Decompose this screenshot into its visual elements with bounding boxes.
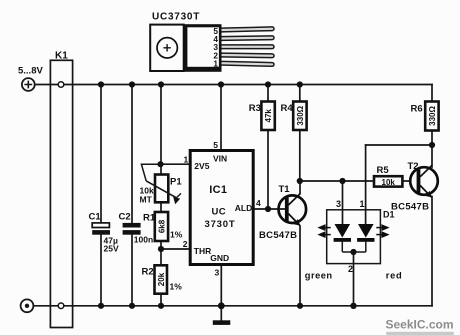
terminal 0 xyxy=(21,299,34,312)
junction dot node THR xyxy=(158,246,164,252)
svg-text:SeekIC.com: SeekIC.com xyxy=(386,318,454,332)
svg-text:1: 1 xyxy=(360,199,365,209)
svg-text:R4: R4 xyxy=(281,103,294,114)
IC package mounting hole xyxy=(157,38,177,58)
P1 wiper wire xyxy=(141,164,160,181)
IC package pin 5 lead xyxy=(219,27,274,32)
svg-text:1%: 1% xyxy=(170,282,183,292)
svg-text:GND: GND xyxy=(210,253,229,263)
IC package pin 4 lead xyxy=(219,36,274,41)
junction dot node A xyxy=(297,178,303,184)
IC package body xyxy=(184,24,222,72)
svg-text:THR: THR xyxy=(194,246,211,256)
svg-text:3: 3 xyxy=(336,199,341,209)
junction dots bottom rail xyxy=(98,302,357,309)
svg-text:1%: 1% xyxy=(170,230,183,240)
svg-text:6k8: 6k8 xyxy=(157,219,166,233)
resistor R2 xyxy=(155,265,168,293)
svg-text:330Ω: 330Ω xyxy=(296,105,305,125)
wire C2 bottom xyxy=(131,235,133,306)
wire R6 to LED pin1 xyxy=(366,144,432,146)
potentiometer P1 box xyxy=(155,175,168,203)
wire pin4 ALD to T1 base xyxy=(253,208,285,210)
wire pin5 VIN xyxy=(220,85,222,151)
P1 wiper arrow xyxy=(146,181,181,204)
svg-text:3: 3 xyxy=(215,268,220,278)
svg-text:10k: 10k xyxy=(382,178,396,187)
junction dot node P1 wiper xyxy=(157,161,163,167)
wire R3 top xyxy=(267,85,269,102)
wire R4 top xyxy=(299,85,301,102)
resistor R3 xyxy=(261,102,274,131)
wire node A to R5 xyxy=(300,180,374,182)
svg-text:R2: R2 xyxy=(142,267,154,278)
IC package body window xyxy=(187,27,219,67)
K1 pin circle top xyxy=(58,82,64,88)
svg-text:C2: C2 xyxy=(119,212,131,223)
svg-text:2: 2 xyxy=(183,239,188,249)
wire pin3 GND xyxy=(220,265,222,321)
K1 pin circle bottom xyxy=(58,303,64,309)
capacitor C1 xyxy=(92,223,110,235)
wire C1 top xyxy=(100,85,102,224)
resistor R1 xyxy=(155,212,168,241)
IC package pin 3 lead xyxy=(219,45,274,49)
capacitor C2 xyxy=(123,223,141,235)
svg-text:5...8V: 5...8V xyxy=(18,66,43,77)
wire T2 base xyxy=(402,180,410,182)
dual LED D1 box xyxy=(327,210,381,264)
op-amp IC1 box xyxy=(190,151,253,265)
wire R3 bottom xyxy=(267,130,269,209)
svg-text:BC547B: BC547B xyxy=(391,202,429,213)
svg-text:IC1: IC1 xyxy=(209,184,227,196)
wire pin2 THR xyxy=(161,248,190,250)
svg-text:330Ω: 330Ω xyxy=(428,106,437,126)
svg-text:C1: C1 xyxy=(89,212,102,223)
svg-text:VIN: VIN xyxy=(213,154,227,164)
svg-text:1: 1 xyxy=(213,59,218,69)
wire P1 top xyxy=(160,85,162,175)
svg-text:4: 4 xyxy=(256,198,261,208)
wire 0V bottom rail xyxy=(34,305,433,307)
svg-text:2V5: 2V5 xyxy=(194,161,209,171)
connector K1 body xyxy=(50,60,72,327)
svg-text:25V: 25V xyxy=(104,244,119,254)
svg-text:P1: P1 xyxy=(170,177,182,188)
svg-text:BC547B: BC547B xyxy=(259,230,297,241)
D1 cathode link xyxy=(342,251,366,253)
IC package pin 2 lead xyxy=(219,53,274,58)
wire LED cathode pin2 down xyxy=(353,252,355,306)
wire P1 to R1 xyxy=(160,202,162,212)
wire T1 emitter down xyxy=(299,226,301,306)
svg-text:R1: R1 xyxy=(143,213,156,224)
D1 light arrows right xyxy=(376,225,387,237)
svg-text:UC3730T: UC3730T xyxy=(152,12,200,23)
ground symbol xyxy=(213,320,231,325)
svg-text:47k: 47k xyxy=(264,109,273,123)
wire +V top rail xyxy=(35,84,432,86)
wire R1 to R2 xyxy=(160,241,162,265)
wire T1 collector up xyxy=(299,181,301,194)
svg-text:5: 5 xyxy=(213,140,218,150)
junction dot LED pin3 node xyxy=(339,178,345,184)
junction dot T2 collector node xyxy=(429,142,435,148)
svg-text:K1: K1 xyxy=(55,51,68,62)
svg-text:T1: T1 xyxy=(279,184,291,195)
junction dot T1 base node xyxy=(265,206,271,212)
svg-text:2: 2 xyxy=(348,264,353,274)
wire LED pin1 anode xyxy=(365,145,367,224)
wire LED pin3 anode xyxy=(342,181,344,224)
svg-text:UC: UC xyxy=(212,207,227,218)
svg-text:100n: 100n xyxy=(134,235,153,245)
svg-text:20k: 20k xyxy=(157,272,166,286)
wire R4 bottom to node A xyxy=(299,130,301,181)
svg-text:R5: R5 xyxy=(377,165,390,176)
wire R6 bottom to T2 collector xyxy=(431,131,433,168)
svg-text:green: green xyxy=(305,271,333,281)
svg-text:3730T: 3730T xyxy=(205,219,236,230)
svg-text:R6: R6 xyxy=(411,104,423,115)
wire T2 emitter down xyxy=(431,197,433,306)
resistor R5 xyxy=(374,176,402,186)
junction dots top rail xyxy=(98,81,303,87)
svg-text:R3: R3 xyxy=(249,103,261,114)
terminal + supply xyxy=(22,78,35,91)
D1 green LED xyxy=(334,224,351,252)
svg-text:D1: D1 xyxy=(383,210,395,220)
transistor T1 xyxy=(279,194,307,226)
wire C1 bottom xyxy=(100,235,102,306)
IC package pin 1 lead xyxy=(219,61,274,66)
IC package tab xyxy=(150,25,184,71)
transistor T2 xyxy=(410,165,438,197)
wire C2 top xyxy=(131,85,133,224)
junction dot LED common cathode xyxy=(350,249,356,255)
resistor R4 xyxy=(293,102,306,131)
D1 red LED xyxy=(357,224,374,252)
resistor R6 xyxy=(425,102,438,131)
svg-text:MT: MT xyxy=(140,195,153,205)
IC package body pin numbers xyxy=(213,26,218,69)
wire pin1 2V5 xyxy=(161,163,191,165)
svg-text:ALD: ALD xyxy=(235,203,252,213)
svg-text:red: red xyxy=(386,271,403,281)
wire top rail down to R6 xyxy=(431,85,433,102)
svg-text:1: 1 xyxy=(184,155,189,165)
D1 light arrows left xyxy=(319,225,330,237)
watermark cropped second line xyxy=(386,332,454,335)
wire R2 bottom xyxy=(160,294,162,306)
svg-text:T2: T2 xyxy=(408,161,419,172)
